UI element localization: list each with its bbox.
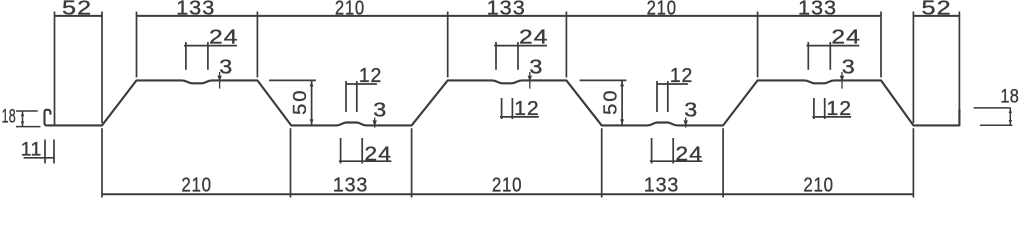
right 18 dim vertical bbox=[1009, 108, 1011, 125]
svg-text:3: 3 bbox=[684, 98, 698, 121]
right 18 bottom tick bbox=[980, 124, 1013, 126]
top extension ext crest3 R bbox=[880, 12, 882, 78]
left 11 ext L bbox=[44, 140, 46, 164]
valley2 3 leader bbox=[685, 118, 687, 128]
crest1 24 ext L bbox=[185, 42, 187, 70]
valley1 24 ext R bbox=[361, 138, 363, 164]
bottom extension valley2 R bbox=[722, 128, 724, 197]
valley2 24 ext L bbox=[651, 138, 653, 164]
crest3 3 arrow bbox=[840, 76, 844, 82]
svg-text:3: 3 bbox=[219, 55, 233, 78]
crest1 24 ext R bbox=[207, 42, 209, 70]
svg-text:24: 24 bbox=[519, 25, 549, 48]
bottom extension valley1 R bbox=[411, 128, 413, 197]
valley1 12 ext R bbox=[356, 81, 358, 112]
svg-text:12: 12 bbox=[514, 98, 540, 121]
crest3 12 ext R bbox=[824, 98, 826, 119]
svg-text:12: 12 bbox=[826, 98, 852, 121]
valley1 50 arrow up bbox=[310, 81, 314, 86]
bottom extension valley1 L bbox=[290, 128, 292, 197]
left 18 dim vertical bbox=[22, 111, 24, 127]
valley2 50 dim vertical bbox=[621, 80, 623, 125]
svg-text:210: 210 bbox=[335, 0, 365, 19]
dim 52 left line bbox=[55, 15, 103, 17]
svg-text:18: 18 bbox=[2, 106, 16, 127]
left 18 top tick bbox=[16, 110, 38, 112]
valley1 12 dim line bbox=[346, 83, 377, 85]
right 18 top tick bbox=[974, 107, 1011, 109]
profile sheet outline bbox=[45, 80, 960, 125]
right 18 arrow down bbox=[1009, 120, 1012, 125]
left 18 bottom tick bbox=[16, 126, 41, 128]
valley2 24 ext R bbox=[672, 138, 674, 164]
crest3 24 dim line bbox=[807, 45, 860, 47]
crest2 24 dim line bbox=[494, 45, 547, 47]
svg-text:24: 24 bbox=[209, 25, 239, 48]
crest1 3 leader bbox=[219, 72, 221, 89]
svg-text:24: 24 bbox=[675, 141, 703, 165]
valley1 50 top tick bbox=[269, 79, 316, 81]
crest1 3 arrow bbox=[217, 76, 221, 82]
valley2 3 arrow bbox=[684, 120, 688, 126]
svg-text:12: 12 bbox=[359, 64, 382, 87]
svg-text:133: 133 bbox=[644, 174, 680, 196]
ext 52 left inner bbox=[101, 12, 103, 124]
svg-text:133: 133 bbox=[487, 0, 526, 19]
valley1 12 ext L bbox=[345, 81, 347, 112]
svg-text:210: 210 bbox=[647, 0, 677, 19]
top extension ext crest1 L bbox=[136, 12, 138, 78]
bottom extension valley2 L bbox=[601, 128, 603, 197]
crest2 12 ext R bbox=[511, 98, 513, 119]
valley2 24 dim line bbox=[650, 160, 703, 162]
bottom extension slope3 base bbox=[912, 128, 914, 197]
crest3 12 dim line bbox=[812, 116, 851, 118]
svg-text:24: 24 bbox=[364, 141, 392, 165]
ext 52 right outer bbox=[958, 12, 960, 126]
crest3 12 ext L bbox=[813, 98, 815, 119]
crest2 24 ext R bbox=[517, 42, 519, 70]
valley1 3 leader bbox=[374, 118, 376, 128]
top extension ext crest2 L bbox=[447, 12, 449, 78]
svg-text:18: 18 bbox=[1000, 85, 1019, 107]
svg-text:52: 52 bbox=[921, 0, 951, 19]
left 18 arrow up bbox=[21, 112, 24, 117]
svg-text:210: 210 bbox=[492, 173, 522, 196]
top extension ext crest1 R bbox=[256, 12, 258, 78]
svg-text:133: 133 bbox=[176, 0, 215, 19]
left 11 dim line bbox=[24, 157, 55, 159]
valley2 50 arrow up bbox=[620, 81, 624, 86]
svg-text:210: 210 bbox=[181, 173, 211, 196]
valley2 12 dim line bbox=[657, 83, 688, 85]
top dim line 133/210 chain bbox=[137, 15, 882, 17]
valley2 50 top tick bbox=[580, 79, 627, 81]
ext 52 right inner bbox=[912, 12, 914, 124]
svg-text:133: 133 bbox=[798, 0, 837, 19]
svg-text:3: 3 bbox=[529, 55, 543, 78]
svg-text:3: 3 bbox=[842, 55, 856, 78]
valley1 24 ext L bbox=[340, 138, 342, 164]
left 18 arrow down bbox=[21, 121, 24, 126]
valley1 24 dim line bbox=[339, 160, 392, 162]
svg-text:12: 12 bbox=[670, 64, 693, 87]
top extension ext crest3 L bbox=[757, 12, 759, 78]
left 11 ext R bbox=[53, 140, 55, 164]
dim 52 right line bbox=[913, 15, 959, 17]
svg-text:11: 11 bbox=[21, 139, 42, 161]
svg-text:50: 50 bbox=[290, 89, 311, 115]
crest2 12 dim line bbox=[500, 116, 539, 118]
valley2 12 ext L bbox=[656, 81, 658, 112]
svg-text:50: 50 bbox=[601, 89, 622, 115]
ext 52 left outer bbox=[54, 12, 56, 126]
valley1 3 arrow bbox=[373, 120, 377, 126]
crest2 12 ext L bbox=[501, 98, 503, 119]
valley2 12 ext R bbox=[667, 81, 669, 112]
svg-text:3: 3 bbox=[373, 98, 387, 121]
crest1 24 dim line bbox=[184, 45, 237, 47]
bottom dim line 210/133 chain bbox=[102, 193, 913, 195]
crest2 24 ext L bbox=[495, 42, 497, 70]
crest3 3 leader bbox=[841, 72, 843, 89]
svg-text:52: 52 bbox=[62, 0, 92, 19]
crest2 3 leader bbox=[529, 72, 531, 89]
valley1 50 dim vertical bbox=[311, 80, 313, 125]
svg-text:210: 210 bbox=[803, 173, 833, 196]
valley2 50 arrow down bbox=[620, 119, 624, 124]
top extension ext crest2 R bbox=[565, 12, 567, 78]
svg-text:133: 133 bbox=[333, 174, 369, 196]
bottom extension slope1 base bbox=[101, 128, 103, 197]
crest3 24 ext L bbox=[807, 42, 809, 70]
crest3 24 ext R bbox=[829, 42, 831, 70]
svg-text:24: 24 bbox=[831, 25, 861, 48]
crest2 3 arrow bbox=[528, 76, 532, 82]
right 18 arrow up bbox=[1009, 109, 1012, 114]
valley1 50 arrow down bbox=[310, 119, 314, 124]
